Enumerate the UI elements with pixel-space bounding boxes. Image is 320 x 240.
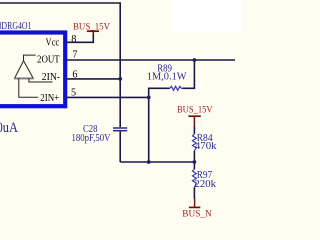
wire: R84 bottom lead — [193, 151, 195, 162]
wire: bottom net — [120, 161, 194, 163]
wire: pin 7 output net — [66, 59, 235, 61]
resistor R84 zigzag (vertical) — [193, 134, 197, 151]
wire: R97 top lead — [193, 162, 195, 169]
junction dot pin6/C28 node — [118, 77, 122, 81]
svg-text:BUS_15V: BUS_15V — [177, 104, 213, 115]
power port BUS_15V (top, pin 8) — [73, 22, 110, 35]
component box U1 (op-amp part body) — [0, 33, 65, 107]
wire: BUS_15V stem to R84 — [193, 127, 195, 134]
resistor R97 zigzag (vertical) — [193, 169, 197, 187]
capacitor C28 plates — [113, 128, 127, 131]
op-amp internal line to 2IN+ — [19, 78, 38, 97]
svg-text:50uA: 50uA — [0, 120, 18, 136]
op-amp triangle — [14, 61, 33, 79]
svg-text:1M,0.1W: 1M,0.1W — [147, 71, 187, 82]
junction dot bottom net/R84/R97 — [193, 160, 197, 164]
junction dot rail/bottom net — [147, 160, 151, 164]
junction dot R89/output — [193, 58, 197, 62]
svg-text:180pF,50V: 180pF,50V — [72, 133, 112, 144]
svg-text:8DRG4O1: 8DRG4O1 — [0, 21, 32, 32]
svg-text:220k: 220k — [195, 179, 217, 190]
wire: R89 left lead and feedback rail — [149, 88, 170, 162]
wire: pin 6 stub — [66, 78, 120, 80]
white area outside sheet (top right) — [172, 0, 242, 32]
svg-text:2IN-: 2IN- — [42, 72, 61, 83]
svg-text:2OUT: 2OUT — [37, 55, 60, 66]
power port BUS_N (bottom) — [182, 199, 212, 220]
svg-text:8: 8 — [71, 34, 76, 45]
svg-text:BUS_15V: BUS_15V — [73, 22, 110, 33]
sheet background — [0, 0, 242, 228]
svg-text:7: 7 — [72, 49, 77, 60]
wire: C28 bottom lead — [119, 131, 121, 162]
wire: pin 8 to BUS_15V power — [66, 34, 93, 42]
svg-text:BUS_N: BUS_N — [182, 209, 212, 220]
wire: R97 bottom lead — [193, 187, 195, 198]
wire: R89 right lead up to output — [183, 60, 195, 88]
power port BUS_15V (right, above R84) — [177, 104, 213, 127]
wire: top net from left edge down to C28/pin6 node — [0, 3, 120, 127]
op-amp internal line to 2IN- — [29, 78, 53, 82]
resistor R89 zigzag — [170, 86, 183, 90]
svg-text:470k: 470k — [195, 141, 218, 152]
svg-text:2IN+: 2IN+ — [40, 93, 59, 104]
wire: pin 5 stub — [66, 96, 149, 98]
svg-text:Vcc: Vcc — [46, 37, 60, 48]
op-amp internal output line to 2OUT — [24, 55, 36, 61]
junction dot pin5/R89 rail — [147, 96, 151, 100]
